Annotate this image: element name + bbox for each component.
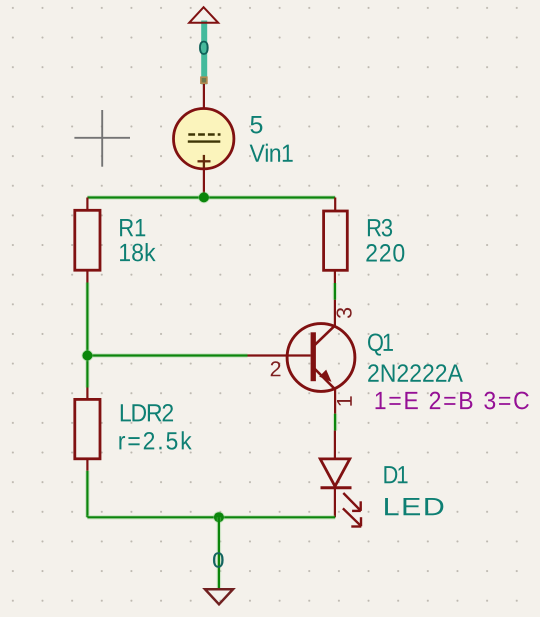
reference label R3	[368, 219, 392, 237]
pin R3 bottom	[334, 270, 336, 283]
wire to ground symbol	[217, 517, 221, 588]
reference label D1	[384, 466, 407, 483]
reference label LDR2	[121, 404, 173, 421]
wire LDR2 to bottom bus	[85, 471, 89, 518]
power flag PWR01 triangle	[189, 7, 218, 23]
voltage source Vin1 body	[174, 109, 234, 169]
transistor Q1 body	[287, 324, 355, 392]
value label 5	[251, 116, 263, 133]
junction at Vin1 output	[198, 192, 210, 204]
wire net0 top highlighted	[201, 21, 207, 85]
ground symbol GND	[205, 589, 233, 604]
junction at ground node	[213, 511, 225, 523]
resistor R1 body	[75, 210, 100, 270]
value label 220	[366, 244, 404, 262]
pin LDR2 top	[86, 388, 88, 400]
pin Vin1 minus (bottom pin)	[203, 169, 205, 198]
reference label Vin1	[250, 144, 293, 162]
pin LDR2 bottom	[86, 459, 88, 471]
reference label R1	[120, 219, 145, 236]
wire emitter to LED	[333, 414, 337, 431]
field label 1=E 2=B 3=C	[376, 392, 529, 410]
pin number 2	[271, 361, 281, 376]
value label r=2.5k	[119, 431, 191, 449]
value label 18k	[120, 243, 156, 261]
pin Q1 base pin2	[248, 354, 288, 356]
value label LED	[385, 498, 443, 515]
wire top horizontal bus	[87, 195, 335, 199]
resistor R3 body	[324, 211, 348, 270]
sheet origin crosshair	[74, 110, 130, 167]
pin Vin1 plus (top pin)	[203, 84, 205, 109]
resistor LDR2 body	[75, 399, 100, 458]
pin D1 anode	[334, 431, 336, 459]
pin Q1 emitter pin1	[334, 390, 336, 414]
net label 0 (top)	[199, 41, 208, 55]
pin number 3	[336, 308, 351, 318]
reference label Q1	[368, 333, 393, 355]
pin Q1 collector pin3	[334, 300, 336, 326]
unconnected pin square marker	[201, 77, 207, 83]
pin R1 top	[86, 198, 88, 211]
junction at base node	[82, 350, 94, 362]
pin number 1	[337, 396, 352, 405]
pin R3 top	[334, 198, 336, 212]
pin D1 cathode	[334, 488, 336, 518]
net label 0 (bottom)	[213, 552, 223, 567]
value label 2N2222A	[368, 364, 463, 381]
wire bottom horizontal bus	[87, 515, 335, 519]
pin R1 bottom	[86, 270, 88, 282]
wire R3 to collector	[333, 283, 337, 300]
wire base horizontal	[87, 353, 247, 357]
wire R1 to base junction	[85, 283, 89, 388]
LED D1 body	[320, 459, 361, 527]
